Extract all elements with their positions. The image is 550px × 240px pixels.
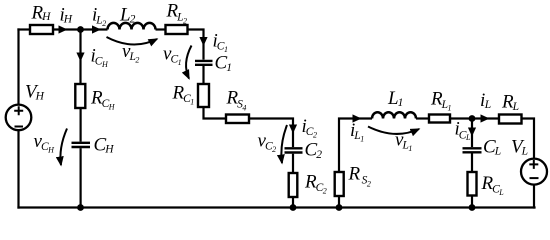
svg-text:RS4: RS4 bbox=[226, 88, 247, 113]
source V_L minus sign bbox=[530, 177, 539, 179]
resistor R_S4 bbox=[226, 115, 249, 124]
resistor R_C1 bbox=[198, 84, 209, 107]
svg-text:L2: L2 bbox=[119, 5, 136, 26]
node junction top-left bbox=[77, 26, 84, 33]
svg-text:L1: L1 bbox=[387, 88, 403, 109]
wire C_L branch node to C_L bbox=[471, 119, 473, 148]
wire top segment R_H to L2 bbox=[53, 28, 108, 30]
source V_H minus sign bbox=[15, 126, 24, 128]
current arrow i_L bbox=[481, 114, 490, 122]
node junction bottom C_L bbox=[469, 204, 476, 211]
source V_H plus sign bbox=[14, 106, 23, 115]
wire R_C2 to bottom bbox=[292, 197, 294, 208]
wire left rail top bbox=[17, 28, 19, 104]
capacitor C_L bbox=[463, 148, 482, 152]
inductor L1 bbox=[372, 112, 416, 118]
wire top segment R_L2 to corner, down to C1 bbox=[188, 30, 204, 60]
wire left rail bottom bbox=[17, 130, 19, 209]
wire R_S2 branch bottom bbox=[338, 196, 340, 208]
svg-text:iC1: iC1 bbox=[213, 31, 228, 55]
svg-text:RL2: RL2 bbox=[166, 1, 188, 26]
wire R_S2 to corner to L1 bbox=[339, 119, 372, 173]
resistor R_C_L bbox=[468, 172, 477, 196]
resistor R_L bbox=[499, 115, 522, 124]
current arrow i_C1 bbox=[199, 37, 207, 46]
svg-text:vC2: vC2 bbox=[258, 131, 277, 155]
voltage arrow v_C_H bbox=[60, 129, 67, 166]
svg-text:RS2: RS2 bbox=[348, 164, 371, 189]
wire top segment to R_H bbox=[17, 28, 30, 30]
svg-text:RCH: RCH bbox=[90, 88, 116, 112]
node junction bottom R_S2 bbox=[336, 204, 343, 211]
current arrow i_C2 bbox=[289, 125, 297, 134]
wire C1 to R_C1 bbox=[202, 66, 204, 84]
node junction right top bbox=[469, 115, 476, 122]
svg-text:C2: C2 bbox=[305, 140, 323, 162]
capacitor C1 bbox=[195, 61, 213, 65]
svg-text:RCL: RCL bbox=[481, 173, 505, 197]
svg-text:vC1: vC1 bbox=[163, 44, 182, 68]
resistor R_C2 bbox=[289, 173, 298, 197]
svg-text:VH: VH bbox=[25, 82, 45, 103]
voltage arrow v_L2 bbox=[107, 37, 158, 45]
node junction bottom C_H bbox=[77, 204, 84, 211]
capacitor C2 bbox=[285, 148, 303, 152]
source V_L circle bbox=[521, 159, 547, 185]
wire C_L to R_C_L bbox=[471, 154, 473, 173]
wire C_H to bottom bbox=[79, 148, 81, 207]
resistor R_C_H bbox=[75, 84, 85, 108]
wire R_L1 to node to R_L bbox=[450, 117, 499, 119]
wire V_L to bottom bbox=[533, 185, 535, 209]
source V_L plus sign bbox=[529, 160, 538, 169]
wire C2 to R_C2 bbox=[292, 154, 294, 173]
inductor L2 bbox=[108, 23, 156, 30]
svg-text:iCL: iCL bbox=[455, 119, 471, 143]
wire top segment L2 to R_L2 bbox=[156, 28, 166, 30]
svg-text:RC2: RC2 bbox=[304, 172, 327, 196]
svg-text:RL: RL bbox=[501, 92, 519, 114]
current arrow i_C_L bbox=[468, 128, 476, 137]
current arrow i_L2 bbox=[92, 25, 101, 33]
voltage arrow v_L1 bbox=[368, 127, 419, 134]
capacitor C_H bbox=[72, 143, 91, 147]
svg-text:RL1: RL1 bbox=[430, 89, 452, 113]
svg-text:RC1: RC1 bbox=[172, 83, 195, 107]
current arrow i_L1 bbox=[353, 114, 362, 122]
resistor R_L1 bbox=[429, 115, 450, 123]
svg-text:iC2: iC2 bbox=[302, 116, 317, 140]
node junction bottom C2 bbox=[290, 204, 297, 211]
svg-text:iL2: iL2 bbox=[92, 5, 106, 29]
svg-text:CL: CL bbox=[483, 137, 501, 158]
svg-text:RH: RH bbox=[31, 2, 52, 23]
current arrow i_C_H bbox=[76, 53, 84, 62]
wire bottom rail bbox=[17, 206, 535, 208]
svg-text:vCH: vCH bbox=[34, 131, 56, 155]
svg-text:iL1: iL1 bbox=[350, 120, 364, 144]
svg-text:iCH: iCH bbox=[91, 46, 109, 70]
svg-text:VL: VL bbox=[511, 137, 528, 158]
voltage arrow v_C2 bbox=[281, 125, 287, 163]
voltage arrow v_C1 bbox=[186, 46, 191, 79]
wire R_C_H to C_H bbox=[79, 108, 81, 142]
svg-text:CH: CH bbox=[94, 135, 115, 156]
wire R_C1 to corner to R_S4 bbox=[204, 107, 227, 119]
resistor R_H bbox=[30, 25, 53, 34]
current arrow i_H bbox=[59, 25, 68, 33]
wire R_C_L to bottom bbox=[471, 196, 473, 208]
source V_H circle bbox=[6, 105, 32, 131]
wire R_L to right corner down to V_L bbox=[522, 119, 535, 159]
wire L1 to R_L1 bbox=[416, 117, 429, 119]
svg-text:iH: iH bbox=[60, 5, 73, 26]
resistor R_L2 bbox=[166, 25, 188, 34]
resistor R_S2 bbox=[335, 172, 344, 196]
svg-text:iL: iL bbox=[480, 90, 491, 111]
wire C_H branch from node to R_C_H bbox=[79, 30, 81, 85]
wire R_S4 to corner, down to C2 bbox=[249, 119, 293, 148]
svg-text:C1: C1 bbox=[215, 53, 232, 75]
